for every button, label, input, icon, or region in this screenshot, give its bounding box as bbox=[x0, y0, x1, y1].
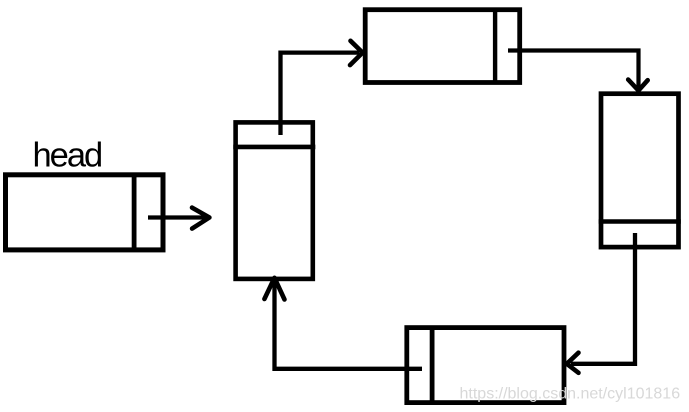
node4 box (bottom) bbox=[407, 328, 564, 403]
head node box bbox=[6, 175, 164, 250]
wire node2 to node3 bbox=[508, 51, 639, 88]
head node divider bbox=[132, 175, 137, 250]
head pointer arrowhead bbox=[192, 208, 209, 229]
arrowhead into node3 bbox=[628, 80, 648, 91]
head label bbox=[33, 137, 102, 175]
wire node3 to node4 bbox=[571, 233, 635, 364]
svg-text:head: head bbox=[33, 137, 102, 175]
wire node4 to node1 bbox=[275, 283, 423, 369]
node2 box (top) bbox=[365, 10, 520, 83]
watermark url text bbox=[460, 385, 681, 402]
wire node1 to node2 bbox=[281, 53, 360, 135]
node3 divider bbox=[599, 219, 681, 224]
node3 box (right vertical) bbox=[601, 94, 679, 247]
node1 divider bbox=[233, 145, 315, 150]
head pointer wire bbox=[148, 215, 207, 219]
node4 divider bbox=[430, 328, 435, 403]
node2 divider bbox=[493, 10, 497, 83]
node1 box (middle vertical) bbox=[236, 122, 313, 279]
svg-text:https://blog.csdn.net/cyl10181: https://blog.csdn.net/cyl101816 bbox=[460, 385, 681, 402]
arrowhead into node4 bbox=[567, 353, 579, 373]
arrowhead into node2 bbox=[350, 41, 363, 65]
arrowhead into node1 bbox=[264, 278, 284, 300]
